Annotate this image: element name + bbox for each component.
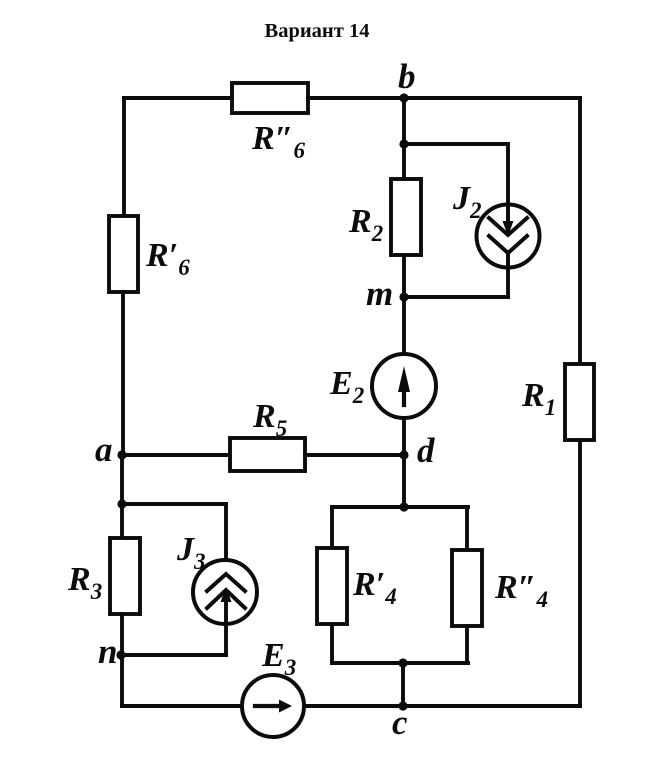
- svg-text:R″4: R″4: [494, 569, 548, 612]
- node n: [98, 632, 126, 671]
- wire b to junction: [402, 98, 406, 144]
- wire R''4 bottom vertical: [465, 626, 469, 663]
- wire d up to E2: [402, 418, 406, 455]
- svg-text:R5: R5: [252, 398, 287, 441]
- svg-text:n: n: [98, 632, 117, 671]
- resistor R''6: [232, 83, 308, 163]
- emf source E2: [329, 354, 436, 418]
- svg-text:R2: R2: [348, 203, 383, 246]
- wire R5 to d: [305, 453, 404, 457]
- wire a down to junction: [120, 455, 124, 504]
- svg-text:R″6: R″6: [251, 120, 305, 163]
- resistor R'6: [109, 216, 190, 292]
- junction R4 bottom rail: [398, 658, 407, 667]
- resistor R2: [348, 179, 421, 255]
- wire bottom rail to c: [401, 663, 405, 706]
- wire J2 bottom horizontal to m: [404, 295, 508, 299]
- wire m to R2: [402, 255, 406, 297]
- svg-text:Вариант 14: Вариант 14: [265, 20, 370, 42]
- wire J2 branch top horizontal: [404, 142, 508, 146]
- wire R4 top rail: [332, 505, 468, 509]
- junction below a: [117, 499, 126, 508]
- svg-text:E2: E2: [329, 365, 364, 408]
- wire J3 branch vertical down: [224, 504, 228, 576]
- title Вариант 14: [265, 20, 370, 42]
- current source J3: [176, 531, 257, 655]
- svg-text:a: a: [95, 430, 113, 469]
- wire R2 up to junction: [402, 144, 406, 179]
- node d: [399, 431, 435, 470]
- svg-text:R3: R3: [67, 561, 102, 604]
- svg-text:m: m: [366, 274, 393, 313]
- svg-text:R′6: R′6: [145, 237, 190, 280]
- svg-text:d: d: [417, 431, 435, 470]
- resistor R3: [67, 538, 140, 614]
- svg-text:b: b: [398, 57, 416, 96]
- current source J2: [452, 180, 540, 268]
- wire junction to R3: [120, 504, 124, 538]
- junction R4 top rail: [399, 502, 408, 511]
- wire d down to R4 rail: [402, 455, 406, 507]
- svg-text:E3: E3: [261, 637, 296, 680]
- wire right vertical lower: [578, 440, 582, 706]
- wire J2 branch vertical down: [506, 144, 510, 222]
- wire R''4 top vertical: [465, 507, 469, 550]
- svg-text:J3: J3: [176, 531, 206, 574]
- svg-text:c: c: [392, 703, 408, 742]
- wire J3 branch top horizontal: [122, 502, 226, 506]
- wire J3 bottom horizontal to n: [121, 653, 226, 657]
- junction below b: [399, 139, 408, 148]
- wire left vertical from n to bottom corner: [120, 655, 124, 706]
- wire E2 to m: [402, 297, 406, 354]
- node a: [95, 430, 127, 469]
- resistor R5: [230, 398, 305, 471]
- node b: [398, 57, 416, 103]
- wire top-left horizontal: [124, 96, 232, 100]
- wire R'4 top vertical: [330, 507, 334, 548]
- wire top horizontal to right corner: [308, 96, 580, 100]
- wire a to R5: [122, 453, 230, 457]
- svg-text:J2: J2: [452, 180, 482, 223]
- wire bottom right horizontal: [403, 704, 580, 708]
- wire left vertical R'6 to a: [121, 292, 125, 455]
- resistor R1: [521, 364, 594, 440]
- wire R'4 bottom vertical: [330, 624, 334, 663]
- wire right vertical upper: [578, 98, 582, 364]
- wire left vertical top: [122, 98, 126, 216]
- wire J2 bottom vertical: [506, 267, 510, 297]
- wire bottom left horizontal: [122, 704, 242, 708]
- wire R4 bottom rail: [332, 661, 468, 665]
- svg-text:R1: R1: [521, 377, 556, 420]
- wire R3 to n: [120, 614, 124, 655]
- node c: [392, 701, 408, 742]
- resistor R'4: [317, 548, 397, 624]
- wire bottom between c and E3: [304, 704, 403, 708]
- resistor R''4: [452, 550, 548, 626]
- node m: [366, 274, 409, 313]
- svg-text:R′4: R′4: [352, 566, 397, 609]
- emf source E3: [242, 637, 304, 737]
